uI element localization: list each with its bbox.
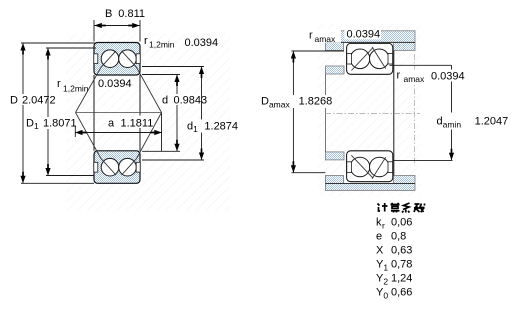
dimension a arrows [75,130,162,135]
axis line between pressure centers [76,112,162,114]
contact line upper-left [76,51,116,113]
contact line lower-left [76,113,116,176]
housing band top [325,31,415,51]
dimension a line [75,113,161,152]
label a 1.1811 [106,116,153,129]
svg-text:0,66: 0,66 [391,287,412,299]
svg-text:0,63: 0,63 [391,245,412,257]
dimension d line [142,75,180,152]
housing bore edge bottom [325,183,415,185]
mounted bearing upper balls [350,49,389,69]
svg-text:r: r [144,35,148,47]
svg-text:r: r [382,221,385,231]
shaft shoulder band upper [325,66,344,74]
dimension D line [21,43,95,183]
mounted bearing upper contact lines [351,47,385,71]
bearing lower section balls [101,158,136,176]
svg-text:a: a [108,118,115,130]
centerline vertical [413,54,415,166]
svg-text:r: r [397,70,401,82]
mounted bearing upper side notches [347,53,393,64]
label D 2.0472 [9,94,56,105]
dimension B line [95,25,140,27]
table heading 计算系数 (vector glyphs) [378,203,425,213]
housing bore edge top [325,41,415,43]
shaft bore line left [324,74,326,152]
contact line upper-right [122,51,162,113]
dimension d1 line [142,67,204,161]
svg-text:e: e [376,231,382,243]
svg-text:amax: amax [315,34,337,44]
mounted bearing lower body [347,151,393,182]
bearing upper section balls [101,50,136,68]
dimension Damax line [292,51,345,173]
svg-text:0.0394: 0.0394 [185,37,219,49]
housing band bottom [325,176,415,191]
dimension B extension lines [94,20,140,42]
svg-text:1.2874: 1.2874 [204,121,238,133]
svg-text:d: d [162,95,168,107]
shoulder extension line lower right [393,159,453,161]
mounted bearing lower contact lines [351,155,385,179]
label D1 1.8071 [25,117,78,129]
svg-text:0.0394: 0.0394 [98,78,132,90]
dimension D arrows [20,43,25,183]
mounted bearing upper body [347,43,393,74]
damin leader vertical [451,65,453,160]
dimension B arrows [94,23,139,28]
svg-text:1.8268: 1.8268 [299,96,333,108]
shaft shoulder band lower [325,152,344,160]
svg-text:amax: amax [404,74,426,84]
svg-text:0,8: 0,8 [391,231,406,243]
dimension D1 line [46,48,96,176]
label damin 1.2047 [434,113,514,130]
label d 0.9843 [160,94,209,105]
dimension d1 arrows [199,67,204,161]
label r amax 0.0394 top [307,29,342,43]
svg-text:D: D [10,95,18,107]
svg-text:1.1811: 1.1811 [121,118,154,130]
svg-text:0,78: 0,78 [391,259,412,271]
svg-text:1.2047: 1.2047 [475,116,509,128]
dimension Damax arrows [291,51,296,173]
bore side line left [93,75,95,151]
bearing lower section side notches [94,162,140,172]
bearing upper section side notches [94,54,140,64]
dimension d arrows [174,75,179,152]
svg-text:r: r [309,30,313,42]
damin leader line top [390,64,452,66]
centerline horizontal [325,112,420,114]
bore side line right [139,75,141,151]
svg-text:0,06: 0,06 [391,217,412,229]
svg-text:1,2min: 1,2min [63,84,89,94]
label r amax 0.0394 right [395,70,429,86]
shaft seat line right [393,50,395,175]
svg-text:r: r [57,78,61,90]
contact line lower-right [122,113,162,176]
svg-text:B: B [105,8,112,20]
svg-text:1,24: 1,24 [391,273,412,285]
watermark texture right figure [318,24,420,196]
svg-text:2.0472: 2.0472 [22,95,56,107]
svg-text:0.0394: 0.0394 [347,29,381,41]
bearing lower section body [94,151,140,184]
svg-text:0.9843: 0.9843 [174,95,208,107]
mounted bearing lower balls [350,157,389,177]
svg-text:0.0394: 0.0394 [431,71,465,83]
svg-text:0.811: 0.811 [118,8,145,20]
label d1 1.2874 [185,120,240,133]
mounted bearing lower side notches [347,162,393,173]
label Damax 1.8268 [259,95,335,108]
bearing upper section body [94,43,140,76]
watermark texture left figure [66,33,230,211]
svg-text:1.8071: 1.8071 [43,118,77,130]
svg-text:X: X [376,245,384,257]
svg-text:1,2min: 1,2min [149,40,175,50]
dimension D1 arrows [45,48,50,176]
damin arrow [449,149,454,161]
